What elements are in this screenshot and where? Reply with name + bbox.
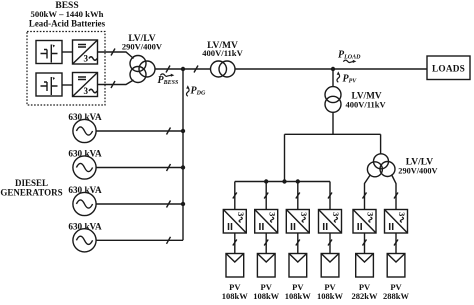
slash tick PV6 [394, 240, 398, 246]
inverter U4 [255, 210, 278, 234]
wire G3 to DG bus [96, 203, 183, 205]
PV bus wire [235, 181, 330, 183]
BESS dashed enclosure [27, 32, 105, 106]
wire U3 to PV1 [234, 233, 236, 254]
junction dot PV bus 3 [296, 179, 300, 183]
PV panel PV5 [356, 254, 374, 278]
generator G4 label [68, 222, 102, 232]
generator G2 [73, 156, 96, 179]
transformer T1 LV/LV label [122, 34, 163, 52]
svg-text:3: 3 [397, 212, 407, 216]
wire U5 to PV3 [297, 233, 299, 254]
svg-text:3: 3 [366, 212, 376, 216]
svg-text:290V/400V: 290V/400V [398, 167, 437, 176]
generator G4 [73, 229, 96, 252]
svg-text:PPV: PPV [343, 74, 358, 85]
junction dot G3 [181, 202, 185, 206]
svg-text:290V/400V: 290V/400V [122, 42, 163, 52]
svg-text:3: 3 [299, 212, 309, 216]
inverter U8 [385, 210, 408, 234]
svg-text:108kW: 108kW [317, 291, 343, 301]
PV1 label [222, 282, 248, 301]
svg-text:PBESS: PBESS [158, 75, 179, 86]
wire U4 to PV2 [265, 233, 267, 254]
generator G1 label [68, 112, 102, 122]
wire converter U2 to transformer T1 [98, 80, 134, 85]
transformer T4 LV/LV label [398, 158, 437, 176]
DIESEL GENERATORS label [0, 178, 62, 198]
svg-text:500kW – 1440 kWh: 500kW – 1440 kWh [31, 9, 104, 19]
slash tick branch2 [264, 193, 268, 199]
junction dot G1 [181, 129, 185, 133]
main bus wire junction A to T2 [183, 68, 211, 70]
PV panel PV6 [387, 254, 405, 278]
PV branch 2 wire down [265, 182, 267, 210]
wire T4 left leg to inverter U7 [365, 175, 371, 210]
LOADS box [427, 56, 470, 80]
wire T4 right leg to inverter U8 [392, 175, 397, 210]
svg-text:PLOAD: PLOAD [338, 50, 361, 61]
PV6 label [383, 282, 409, 301]
PV panel PV4 [321, 254, 339, 278]
DG bus wire vertical [182, 69, 184, 240]
distribution wire horizontal [285, 133, 381, 135]
P_PV wavy arrow up [337, 71, 340, 82]
svg-text:3: 3 [331, 212, 341, 216]
converter U2 (DC/AC) [73, 73, 98, 97]
svg-text:630 kVA: 630 kVA [68, 112, 102, 122]
slash tick G1 [167, 128, 171, 135]
svg-text:630 kVA: 630 kVA [68, 222, 102, 232]
generator G3 label [68, 185, 102, 195]
slash tick branch4 [328, 193, 332, 199]
svg-text:DIESEL: DIESEL [15, 178, 48, 188]
transformer T1 LV/LV three windings [130, 56, 155, 83]
svg-text:Lead-Acid Batteries: Lead-Acid Batteries [29, 19, 106, 29]
transformer T4 LV/LV three windings [367, 154, 395, 177]
generator G2 label [68, 149, 102, 159]
wire battery B2 to converter U2 [62, 84, 73, 86]
transformer T3 LV/MV label [346, 92, 387, 110]
slash tick PV2 [264, 240, 268, 246]
main bus wire junction B to LOADS [333, 68, 427, 70]
slash tick on U1 wire [111, 49, 115, 56]
transformer T2 LV/MV windings [211, 61, 236, 77]
slash tick PV1 [233, 240, 237, 246]
P_BESS wavy arrow [160, 74, 174, 77]
svg-text:3: 3 [84, 86, 89, 96]
junction B dot [331, 67, 335, 71]
svg-text:288kW: 288kW [383, 291, 409, 301]
junction A dot [181, 67, 185, 71]
PV branch 1 wire down [234, 182, 236, 210]
svg-text:630 kVA: 630 kVA [68, 149, 102, 159]
inverter U5 [286, 210, 309, 234]
inverter U7 [353, 210, 376, 234]
svg-text:108kW: 108kW [222, 291, 248, 301]
wire distribution drop right to T4 [380, 134, 382, 154]
P_DG label [191, 86, 206, 97]
wire G2 to DG bus [96, 167, 183, 169]
svg-text:108kW: 108kW [285, 291, 311, 301]
main bus wire T1 to junction A [155, 68, 183, 70]
BESS title text [29, 1, 106, 29]
svg-text:630 kVA: 630 kVA [68, 185, 102, 195]
junction dot G2 [181, 165, 185, 169]
P_PV label [343, 74, 358, 85]
wire T3 down to distribution line [332, 112, 334, 134]
slash tick PV5 [363, 240, 367, 246]
PV3 label [285, 282, 311, 301]
wire distribution drop left to PV bus [284, 134, 286, 181]
inverter U3 [223, 210, 246, 234]
P_DG wavy arrow up [186, 85, 189, 96]
slash tick PV4 [328, 240, 332, 246]
slash tick G2 [167, 164, 171, 171]
svg-text:400V/11kV: 400V/11kV [202, 48, 243, 58]
junction dot PV bus 2 [264, 179, 268, 183]
P_LOAD wavy arrow [343, 60, 356, 63]
wire G4 to DG bus [96, 239, 183, 241]
PV panel PV2 [257, 254, 275, 278]
slash tick G3 [167, 201, 171, 208]
slash tick PV3 [296, 240, 300, 246]
svg-text:400V/11kV: 400V/11kV [346, 100, 387, 110]
wire battery B1 to converter U1 [62, 51, 73, 53]
wire U8 to PV6 [395, 233, 397, 254]
slash tick [194, 66, 198, 73]
slash tick branch1 [233, 193, 237, 199]
svg-text:LOADS: LOADS [432, 64, 465, 74]
svg-text:GENERATORS: GENERATORS [0, 188, 62, 198]
svg-text:3: 3 [84, 54, 89, 64]
svg-text:282kW: 282kW [352, 291, 378, 301]
PV panel PV1 [226, 254, 244, 278]
battery B2 [36, 73, 62, 96]
inverter U6 [319, 210, 342, 234]
P_BESS label [158, 75, 179, 86]
wire junction B down to T3 [332, 69, 334, 87]
svg-text:PDG: PDG [191, 86, 206, 97]
wire U7 to PV5 [364, 233, 366, 254]
svg-text:108kW: 108kW [253, 291, 279, 301]
PV branch 3 wire down [297, 182, 299, 210]
slash tick leg5 [363, 193, 367, 199]
generator G3 [73, 192, 96, 215]
PV panel PV3 [289, 254, 307, 278]
slash tick leg6 [394, 193, 398, 199]
transformer T2 LV/MV label [202, 41, 243, 58]
wire U6 to PV4 [329, 233, 331, 254]
slash tick on U2 wire [111, 81, 115, 88]
slash tick G4 [167, 237, 171, 244]
slash tick branch3 [296, 193, 300, 199]
PV2 label [253, 282, 279, 301]
wire G1 to DG bus [96, 130, 183, 132]
transformer T3 LV/MV windings (vertical) [325, 87, 341, 113]
main bus wire T2 to junction B [235, 68, 333, 70]
PV5 label [352, 282, 378, 301]
svg-text:3: 3 [236, 212, 246, 216]
PV branch 4 wire down [329, 182, 331, 210]
PV4 label [317, 282, 343, 301]
battery B1 [36, 41, 62, 64]
P_LOAD label [338, 50, 361, 61]
slash tick main bus left [166, 66, 170, 73]
converter U1 (DC/AC) [73, 40, 98, 64]
svg-text:3: 3 [267, 212, 277, 216]
generator G1 [73, 119, 96, 142]
junction dot PV bus feed [282, 179, 286, 183]
wire converter U1 to transformer T1 [98, 52, 134, 59]
